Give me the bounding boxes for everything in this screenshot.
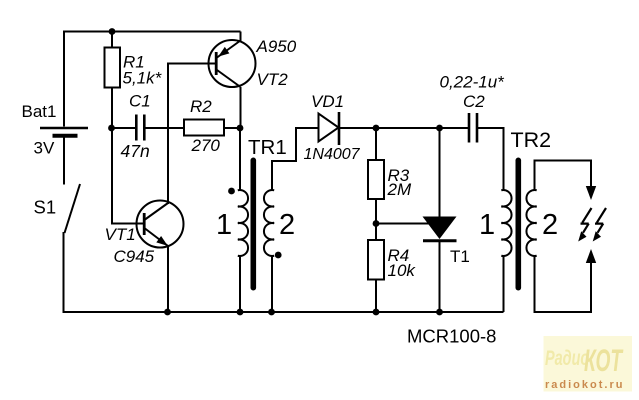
- svg-text:C1: C1: [129, 92, 151, 111]
- svg-text:Радио: Радио: [545, 346, 589, 369]
- wire TR2 secondary bottom to lamp: [535, 255, 592, 312]
- flash lamp electrode arrow bottom: [586, 249, 596, 263]
- node TR1 primary rail junction: [237, 309, 244, 316]
- switch S1 blade: [65, 184, 81, 233]
- svg-text:R2: R2: [190, 97, 212, 116]
- wire C1 to R2: [146, 127, 185, 129]
- flash lamp electrode arrow top: [586, 186, 596, 200]
- wire TR1 primary top lead: [239, 128, 241, 191]
- wire VT2 emitter drop: [240, 32, 242, 42]
- watermark background: [544, 336, 633, 392]
- wire R1 node down to VT1 base: [112, 128, 144, 224]
- svg-text:5,1k*: 5,1k*: [123, 69, 163, 88]
- svg-text:T1: T1: [450, 247, 470, 266]
- diode VD1: [319, 112, 340, 145]
- svg-text:TR2: TR2: [511, 128, 552, 152]
- svg-text:VD1: VD1: [311, 92, 344, 111]
- wire VT1 collector to VT2 base: [168, 64, 216, 205]
- wire gate node to thyristor: [376, 223, 432, 225]
- transformer TR2 secondary winding: [526, 190, 536, 256]
- svg-text:Bat1: Bat1: [22, 102, 57, 121]
- node R1 top rail junction: [109, 28, 116, 35]
- transformer TR2 core: [516, 158, 522, 291]
- wire R2 to VT2 collector node: [224, 127, 241, 129]
- svg-text:1: 1: [216, 209, 232, 241]
- flash lamp bolt 1: [578, 208, 591, 242]
- capacitor C1: [136, 115, 144, 141]
- svg-text:270: 270: [191, 136, 221, 155]
- wire TR2 primary bottom lead: [503, 255, 505, 312]
- TR1 phase dot secondary: [275, 252, 282, 259]
- svg-text:A950: A950: [256, 37, 297, 56]
- battery Bat1: [40, 128, 88, 136]
- wire T1 anode: [439, 128, 441, 217]
- wire VT1 emitter to bottom rail: [167, 245, 169, 312]
- svg-text:2M: 2M: [387, 180, 412, 199]
- svg-text:0,22-1u*: 0,22-1u*: [440, 73, 506, 92]
- svg-text:47n: 47n: [121, 141, 150, 161]
- svg-text:S1: S1: [34, 197, 57, 218]
- wire VT2 collector to TR1 primary: [240, 87, 242, 128]
- svg-text:C2: C2: [463, 92, 485, 111]
- transistor VT1: [137, 201, 184, 248]
- wire left column battery to top rail: [63, 32, 65, 127]
- node R2 VT2-collector TR1 junction: [237, 125, 244, 132]
- transformer TR1 core: [251, 158, 257, 291]
- node R1 C1 VT1-base junction: [108, 125, 115, 132]
- node T1 cathode rail junction: [436, 309, 443, 316]
- transformer TR1 secondary winding: [264, 190, 274, 256]
- svg-text:1: 1: [479, 209, 495, 241]
- wire TR1 secondary bottom to rail: [271, 255, 273, 312]
- capacitor C2: [469, 113, 477, 143]
- wire battery to switch: [63, 138, 65, 185]
- svg-text:MCR100-8: MCR100-8: [407, 326, 496, 347]
- wire VD1 to C2: [339, 127, 468, 129]
- transformer TR2 primary winding: [501, 190, 511, 256]
- node TR1 secondary rail junction: [268, 309, 275, 316]
- resistor R2: [184, 120, 224, 136]
- svg-text:1N4007: 1N4007: [304, 146, 361, 163]
- svg-text:radiokot.ru: radiokot.ru: [545, 379, 624, 391]
- svg-text:3V: 3V: [34, 139, 55, 158]
- svg-text:VT1: VT1: [105, 225, 136, 244]
- wire C2 to TR2 primary: [478, 128, 504, 191]
- resistor R3: [368, 128, 384, 224]
- node VT1 emitter rail junction: [164, 309, 171, 316]
- svg-text:C945: C945: [114, 247, 155, 266]
- transformer TR1 primary winding: [238, 190, 248, 256]
- node R4 rail junction: [373, 309, 380, 316]
- node R3 R4 gate junction: [373, 220, 380, 227]
- wire switch to bottom rail: [63, 232, 65, 311]
- wire TR2 secondary top to lamp: [535, 161, 592, 192]
- resistor R1: [105, 33, 121, 128]
- svg-text:2: 2: [279, 209, 295, 241]
- TR1 phase dot primary: [228, 188, 235, 195]
- node C2 T1-anode junction: [436, 125, 443, 132]
- flash lamp bolt 2: [593, 208, 606, 242]
- wire TR1 secondary top to VD1: [272, 128, 319, 191]
- node VD1 R3 junction: [373, 125, 380, 132]
- svg-text:2: 2: [542, 209, 558, 241]
- svg-text:10k: 10k: [388, 261, 417, 280]
- wire TR1 primary bottom lead: [239, 255, 241, 312]
- resistor R4: [368, 224, 384, 313]
- wire mid rail battery junction to C1: [112, 127, 135, 129]
- svg-text:КОТ: КОТ: [584, 342, 623, 378]
- thyristor T1: [423, 217, 457, 313]
- svg-text:VT2: VT2: [257, 70, 289, 89]
- wire top rail: [63, 31, 241, 33]
- wire bottom rail: [63, 311, 504, 313]
- svg-text:TR1: TR1: [248, 136, 287, 159]
- transistor VT2: [209, 40, 256, 87]
